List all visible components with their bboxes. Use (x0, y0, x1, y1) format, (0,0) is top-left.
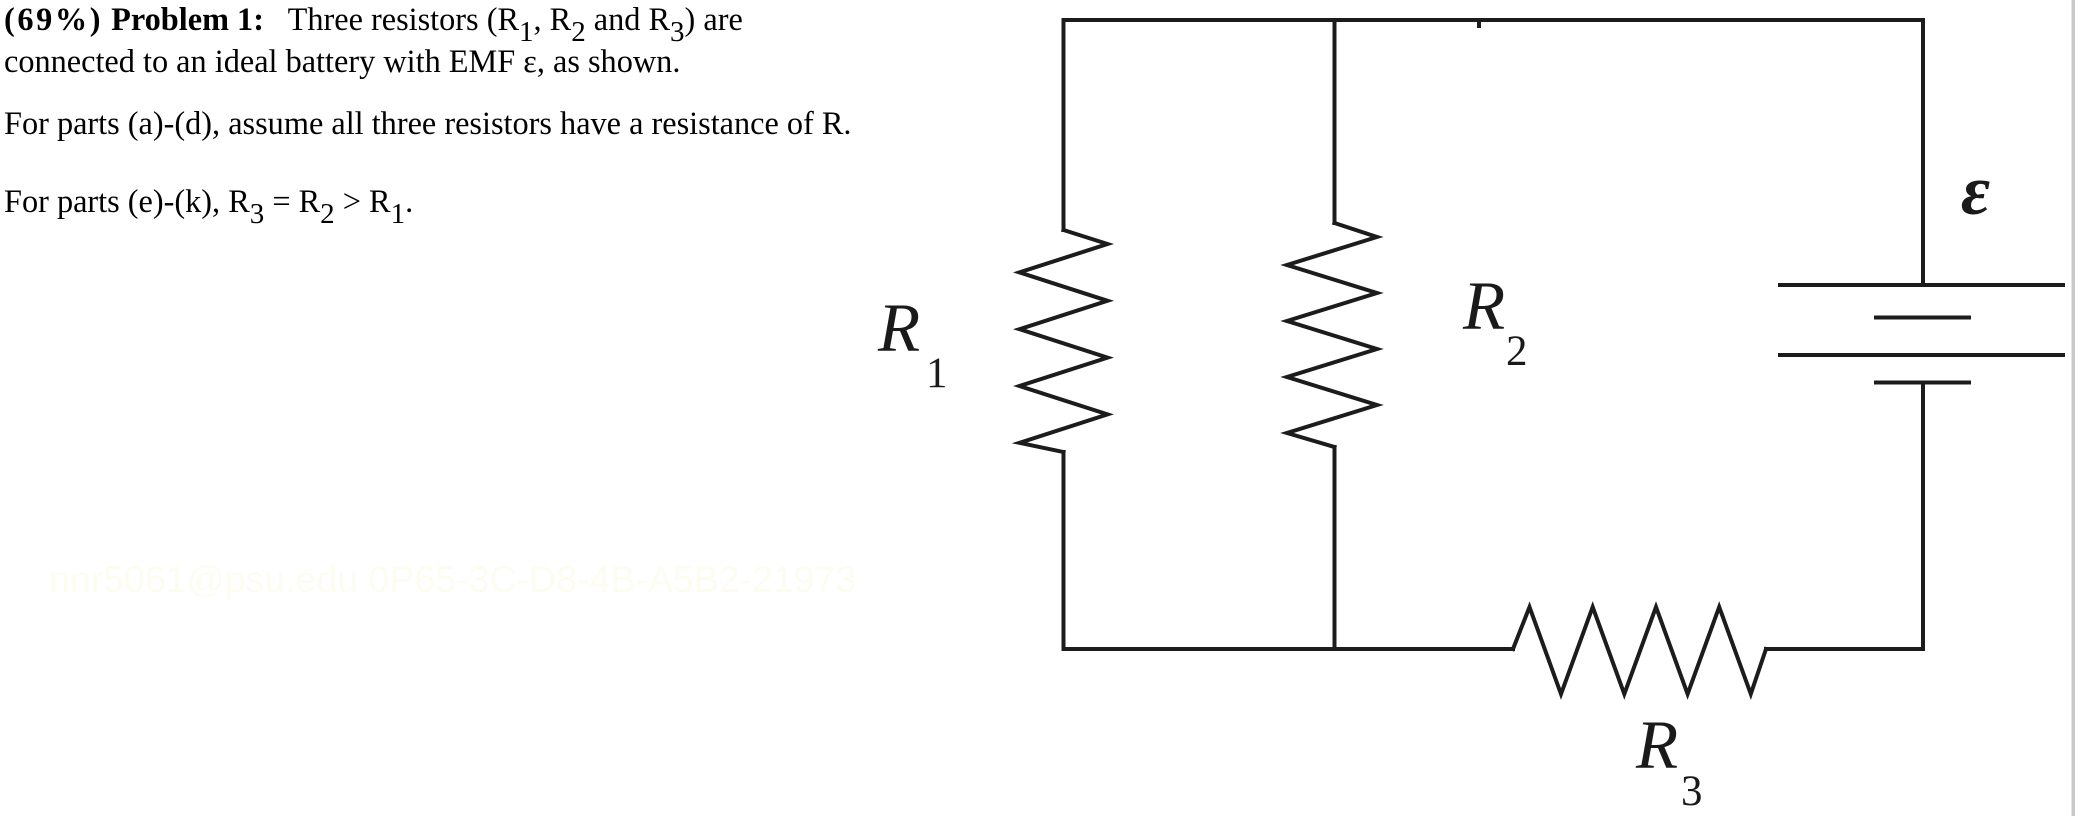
svg-text:R: R (1635, 707, 1678, 783)
wire: battery bottom lead (1921, 383, 1925, 650)
svg-text:R: R (877, 290, 920, 366)
battery: bottom short plate (-) (1876, 381, 1969, 385)
wire: battery top lead (1921, 20, 1925, 285)
wire: R2 top lead (1333, 20, 1337, 223)
svg-text:1: 1 (926, 350, 948, 397)
resistor R3 (1513, 607, 1766, 694)
watermark (49, 561, 856, 598)
battery: second long plate (+) (1780, 353, 2063, 357)
svg-text:R: R (1462, 268, 1505, 344)
problem statement paragraph 3 (4, 181, 413, 223)
battery: first short plate (-) (1876, 316, 1969, 320)
resistor R1 (1020, 230, 1108, 452)
wire: junction tick on top wire (1477, 22, 1481, 26)
problem statement paragraph 1 (4, 0, 743, 81)
svg-text:2: 2 (1506, 328, 1528, 375)
problem statement paragraph 2 (4, 103, 852, 143)
wire: bottom left segment (1064, 647, 1514, 651)
svg-text:3: 3 (1681, 768, 1703, 815)
wire: bottom right segment (1766, 647, 1923, 651)
page right edge divider (2072, 0, 2076, 816)
resistor R2 (1287, 223, 1377, 447)
wire: R1 bottom lead (1062, 452, 1066, 649)
battery: top long plate (+) (1780, 283, 2063, 287)
svg-text:ε: ε (1961, 152, 1990, 230)
wire: R2 bottom lead (1333, 447, 1337, 649)
wire: top horizontal (1064, 18, 1924, 22)
wire: R1 top lead (1062, 20, 1066, 230)
